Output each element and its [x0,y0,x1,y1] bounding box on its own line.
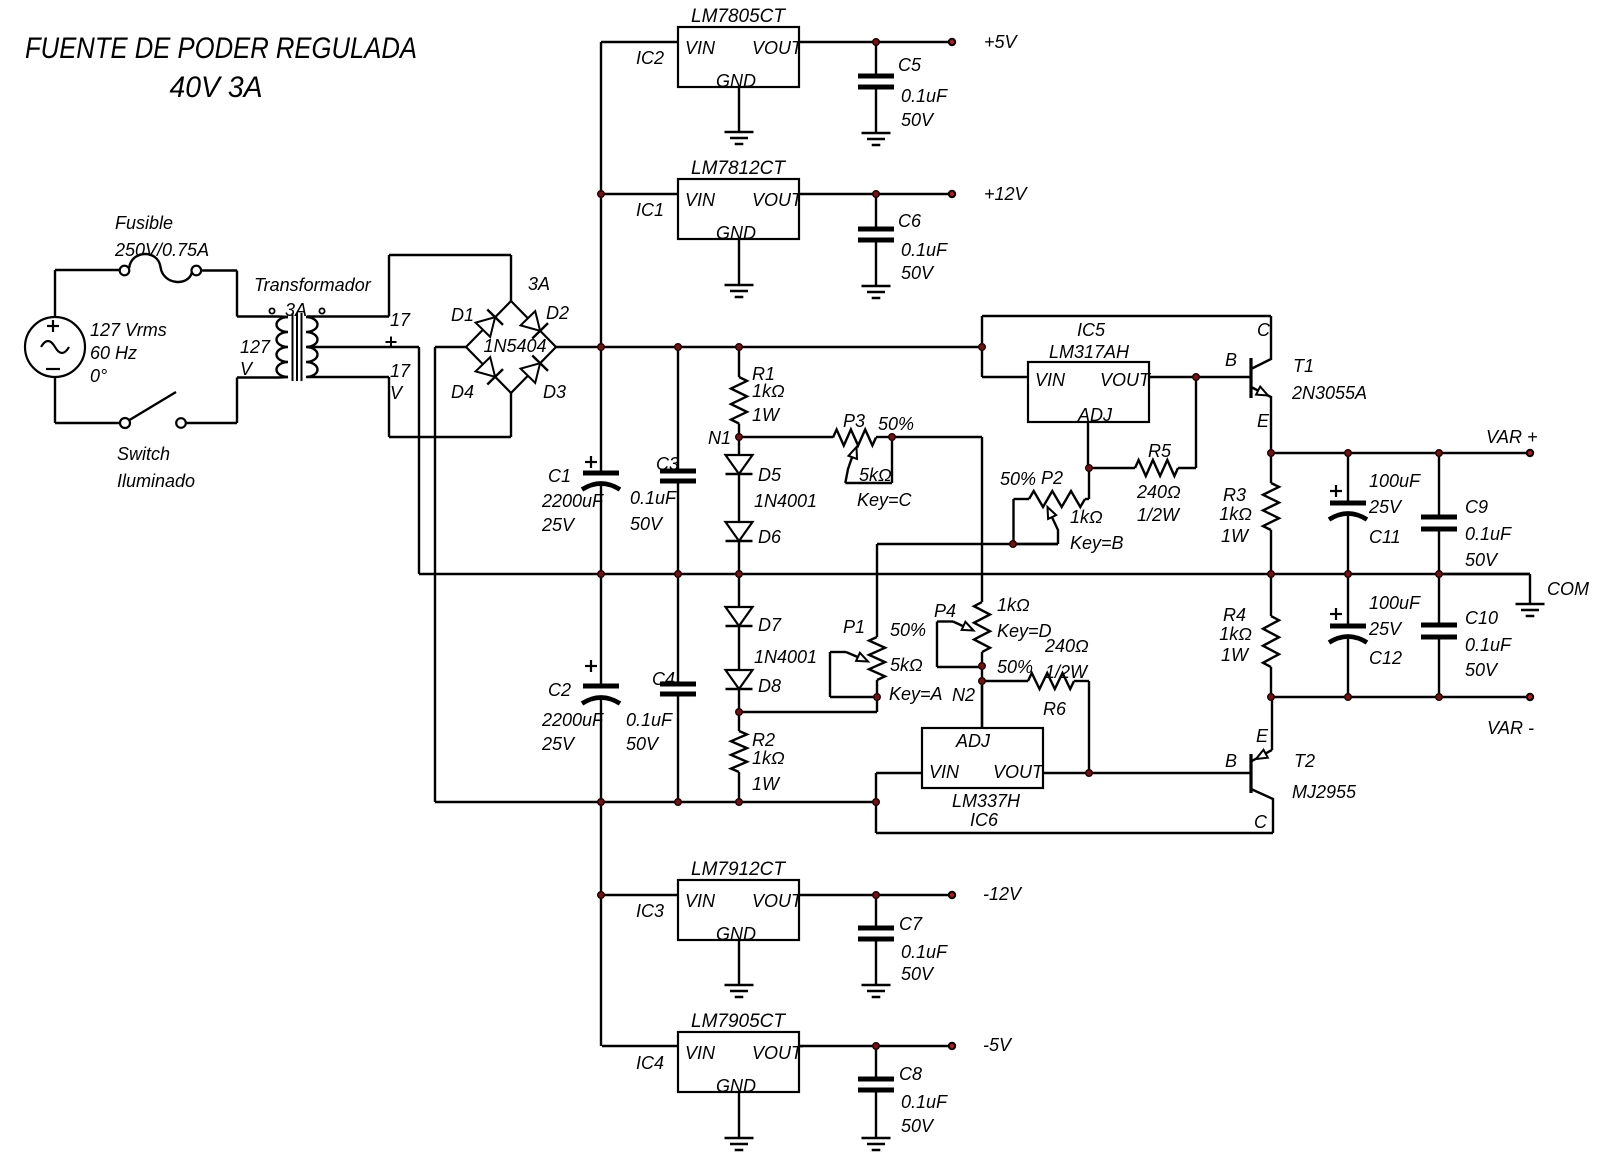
svg-text:C11: C11 [1369,527,1401,547]
svg-text:100uF: 100uF [1369,593,1421,613]
svg-text:VIN: VIN [1035,370,1066,390]
svg-text:5kΩ: 5kΩ [859,465,892,485]
svg-text:1/2W: 1/2W [1137,505,1181,525]
svg-text:50V: 50V [901,263,935,283]
svg-text:100uF: 100uF [1369,471,1421,491]
svg-text:V: V [390,383,404,403]
svg-text:C: C [1254,812,1268,832]
svg-text:50V: 50V [901,964,935,984]
svg-text:VIN: VIN [685,38,716,58]
svg-text:D1: D1 [451,305,474,325]
svg-text:50%: 50% [890,620,926,640]
svg-text:N2: N2 [952,685,975,705]
svg-text:50%: 50% [878,414,914,434]
svg-text:0°: 0° [90,366,107,386]
svg-text:LM7905CT: LM7905CT [691,1011,786,1032]
svg-text:Fusible: Fusible [115,213,173,233]
svg-text:Key=C: Key=C [857,490,913,510]
svg-text:1kΩ: 1kΩ [752,748,785,768]
svg-text:GND: GND [716,71,756,91]
svg-text:0.1uF: 0.1uF [901,1092,948,1112]
svg-text:25V: 25V [541,734,576,754]
svg-text:IC6: IC6 [970,810,999,830]
svg-text:127: 127 [240,337,271,357]
svg-text:D3: D3 [543,382,566,402]
svg-text:VOUT: VOUT [752,38,804,58]
svg-text:250V/0.75A: 250V/0.75A [114,240,209,260]
svg-text:1/2W: 1/2W [1045,662,1089,682]
svg-text:FUENTE DE PODER REGULADA: FUENTE DE PODER REGULADA [25,32,417,65]
svg-text:0.1uF: 0.1uF [1465,524,1512,544]
svg-text:E: E [1256,726,1269,746]
svg-text:VIN: VIN [929,762,960,782]
svg-text:50V: 50V [1465,660,1499,680]
svg-text:D8: D8 [758,676,781,696]
svg-text:Key=B: Key=B [1070,533,1124,553]
svg-text:50V: 50V [630,514,664,534]
svg-text:GND: GND [716,1076,756,1096]
svg-text:IC5: IC5 [1077,320,1106,340]
svg-text:0.1uF: 0.1uF [1465,635,1512,655]
svg-text:D5: D5 [758,465,782,485]
svg-text:17: 17 [390,310,411,330]
svg-text:50V: 50V [901,1116,935,1136]
svg-text:D2: D2 [546,303,569,323]
svg-text:2200uF: 2200uF [541,710,604,730]
svg-text:N1: N1 [708,428,731,448]
svg-text:25V: 25V [1368,497,1403,517]
svg-text:GND: GND [716,223,756,243]
svg-text:IC3: IC3 [636,901,664,921]
svg-text:C5: C5 [898,55,922,75]
svg-text:C: C [1257,320,1271,340]
svg-text:MJ2955: MJ2955 [1292,782,1357,802]
svg-text:1N5404: 1N5404 [483,336,546,356]
svg-text:C10: C10 [1465,608,1498,628]
svg-text:VOUT: VOUT [1100,370,1152,390]
svg-text:1kΩ: 1kΩ [752,381,785,401]
svg-text:+12V: +12V [984,184,1029,204]
svg-text:GND: GND [716,924,756,944]
svg-text:C4: C4 [652,669,675,689]
svg-text:T1: T1 [1293,356,1314,376]
svg-text:240Ω: 240Ω [1136,482,1181,502]
svg-text:1kΩ: 1kΩ [997,595,1030,615]
svg-text:COM: COM [1547,579,1589,599]
svg-text:Transformador: Transformador [254,275,372,295]
svg-text:127 Vrms: 127 Vrms [90,320,167,340]
svg-text:IC2: IC2 [636,48,664,68]
svg-text:LM7812CT: LM7812CT [691,158,786,179]
svg-text:P2: P2 [1041,468,1063,488]
svg-text:1W: 1W [752,405,781,425]
svg-text:P3: P3 [843,411,865,431]
svg-text:50%: 50% [1000,469,1036,489]
svg-text:0.1uF: 0.1uF [901,86,948,106]
svg-text:VAR +: VAR + [1486,427,1538,447]
svg-text:17: 17 [390,361,411,381]
svg-text:IC4: IC4 [636,1053,664,1073]
svg-text:5kΩ: 5kΩ [890,655,923,675]
svg-text:1W: 1W [1221,645,1250,665]
svg-text:P1: P1 [843,617,865,637]
svg-text:1W: 1W [1221,526,1250,546]
svg-text:C2: C2 [548,680,571,700]
svg-text:50V: 50V [1465,550,1499,570]
svg-text:C7: C7 [899,914,923,934]
svg-text:VOUT: VOUT [752,891,804,911]
svg-text:1W: 1W [752,774,781,794]
svg-text:Key=D: Key=D [997,621,1052,641]
svg-text:50V: 50V [626,734,660,754]
svg-text:Iluminado: Iluminado [117,471,195,491]
svg-text:0.1uF: 0.1uF [626,710,673,730]
svg-text:P4: P4 [934,601,956,621]
svg-text:VOUT: VOUT [752,1043,804,1063]
svg-text:VIN: VIN [685,1043,716,1063]
svg-text:2N3055A: 2N3055A [1291,383,1367,403]
svg-text:ADJ: ADJ [1077,405,1113,425]
svg-text:1kΩ: 1kΩ [1219,504,1252,524]
svg-text:-5V: -5V [983,1035,1013,1055]
svg-text:1N4001: 1N4001 [754,491,817,511]
svg-text:50V: 50V [901,110,935,130]
svg-text:D7: D7 [758,615,782,635]
svg-text:ADJ: ADJ [955,731,991,751]
svg-text:B: B [1225,751,1237,771]
svg-text:1kΩ: 1kΩ [1070,507,1103,527]
svg-text:D4: D4 [451,382,474,402]
svg-text:25V: 25V [541,515,576,535]
svg-text:Switch: Switch [117,444,170,464]
svg-text:2200uF: 2200uF [541,491,604,511]
svg-text:VIN: VIN [685,891,716,911]
svg-text:0.1uF: 0.1uF [901,942,948,962]
svg-text:60 Hz: 60 Hz [90,343,137,363]
svg-text:C1: C1 [548,466,571,486]
svg-text:1N4001: 1N4001 [754,647,817,667]
svg-text:T2: T2 [1294,751,1315,771]
svg-text:LM317AH: LM317AH [1049,342,1130,362]
svg-text:50%: 50% [997,657,1033,677]
svg-text:VIN: VIN [685,190,716,210]
svg-text:0.1uF: 0.1uF [901,240,948,260]
svg-text:R2: R2 [752,730,775,750]
svg-text:VOUT: VOUT [752,190,804,210]
svg-text:0.1uF: 0.1uF [630,488,677,508]
svg-text:C3: C3 [656,454,679,474]
svg-text:Key=A: Key=A [889,684,943,704]
svg-text:VOUT: VOUT [993,762,1045,782]
svg-text:IC1: IC1 [636,200,664,220]
svg-text:VAR -: VAR - [1487,718,1534,738]
svg-text:R3: R3 [1223,485,1246,505]
svg-text:D6: D6 [758,527,782,547]
svg-text:LM337H: LM337H [952,791,1021,811]
svg-text:+5V: +5V [984,32,1019,52]
svg-text:25V: 25V [1368,619,1403,639]
svg-text:3A: 3A [528,274,550,294]
svg-text:C12: C12 [1369,648,1402,668]
svg-text:E: E [1257,411,1270,431]
svg-text:R5: R5 [1148,441,1172,461]
svg-text:B: B [1225,350,1237,370]
svg-text:40V 3A: 40V 3A [170,71,263,104]
svg-text:1kΩ: 1kΩ [1219,624,1252,644]
svg-text:C9: C9 [1465,497,1488,517]
svg-text:C8: C8 [899,1064,922,1084]
svg-text:-12V: -12V [983,884,1023,904]
svg-text:LM7912CT: LM7912CT [691,859,786,880]
svg-text:LM7805CT: LM7805CT [691,6,786,27]
svg-text:C6: C6 [898,211,922,231]
svg-text:240Ω: 240Ω [1044,636,1089,656]
svg-text:R4: R4 [1223,605,1246,625]
svg-text:V: V [240,359,254,379]
svg-text:R6: R6 [1043,699,1067,719]
